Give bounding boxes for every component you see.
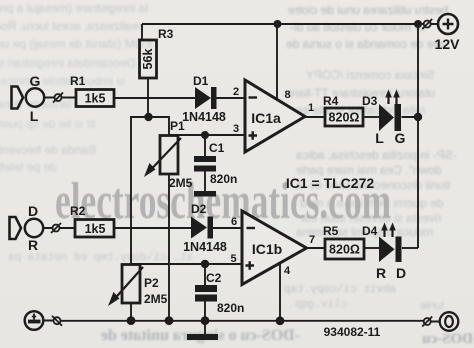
wire ground stub below rail — [204, 320, 206, 334]
svg-text:1k5: 1k5 — [85, 222, 106, 236]
svg-text:IC1 = TLC272: IC1 = TLC272 — [286, 175, 375, 191]
12V supply terminal — [435, 14, 461, 52]
svg-text:L: L — [30, 108, 39, 124]
ground bar below C1 — [194, 191, 216, 197]
svg-text:1N4148: 1N4148 — [183, 240, 227, 254]
svg-text:2M5: 2M5 — [144, 292, 168, 306]
junction node P1 to ground rail — [165, 316, 174, 325]
svg-text:IC1b: IC1b — [252, 241, 282, 257]
svg-text:R: R — [28, 237, 38, 253]
svg-text:2M5: 2M5 — [169, 176, 193, 190]
wire D4 cathode to +12V rail — [402, 247, 418, 249]
junction node on top rail at 12V — [414, 20, 422, 28]
potentiometer P2 2M5 — [108, 265, 168, 307]
svg-text:8: 8 — [285, 89, 291, 101]
wire D2 cathode to pin 6 — [213, 227, 243, 229]
wire C1 top lead — [204, 135, 206, 156]
wire P1 top to pin 3 — [169, 134, 245, 136]
svg-text:L: L — [375, 130, 384, 146]
svg-text:6: 6 — [231, 216, 237, 228]
connector symbol at 0V right — [422, 317, 432, 327]
svg-text:R5: R5 — [323, 224, 339, 238]
potentiometer P1 2M5 — [144, 119, 193, 190]
diode D2 1N4148 — [183, 202, 227, 254]
wire bias node to P2 top (long left branch) — [131, 117, 148, 264]
ground terminal (chassis) — [25, 311, 44, 330]
junction node C2 to ground rail — [201, 316, 210, 325]
LED D4 — [362, 223, 406, 282]
wire input L to R1 — [44, 97, 75, 99]
wire R4 to D3 — [363, 116, 379, 118]
jack plug symbol R input — [10, 217, 22, 239]
wire R1 to D1 — [114, 97, 195, 99]
wire right +12V rail — [417, 24, 419, 248]
svg-text:12V: 12V — [435, 36, 461, 52]
svg-text:G: G — [395, 130, 406, 146]
svg-text:1N4148: 1N4148 — [182, 110, 226, 124]
junction node pin4 to ground rail — [276, 316, 285, 325]
svg-text:D3: D3 — [362, 94, 378, 108]
wire D3 cathode to +12V rail — [402, 116, 419, 118]
junction node on top rail at pin8 — [274, 20, 282, 28]
wire C1 bottom to ground bar — [204, 172, 206, 192]
junction node P2 to ground rail — [127, 316, 136, 325]
svg-text:C1: C1 — [209, 141, 225, 155]
svg-text:4: 4 — [284, 265, 291, 277]
connector symbol at ground left — [52, 316, 62, 326]
wire C2 top lead — [204, 264, 206, 285]
wire 12V terminal link — [418, 23, 438, 25]
resistor R2 — [75, 220, 114, 238]
svg-text:56k: 56k — [141, 49, 155, 70]
input socket circle G/L — [26, 88, 44, 106]
svg-text:1: 1 — [308, 102, 314, 114]
junction node pin3/C1 — [201, 131, 209, 139]
capacitor C1 820n — [194, 141, 237, 186]
wire P2 bottom lead — [130, 303, 132, 320]
svg-text:D4: D4 — [362, 224, 378, 238]
svg-text:R3: R3 — [158, 27, 174, 41]
svg-text:G: G — [30, 73, 41, 89]
diode D1 1N4148 — [182, 74, 226, 124]
wire C2 bottom lead — [204, 301, 206, 320]
wire top supply rail — [142, 23, 418, 25]
wire R5 to D4 — [364, 247, 379, 249]
LED D3 — [362, 90, 406, 147]
resistor R4 — [325, 108, 363, 126]
svg-text:R: R — [376, 265, 386, 281]
op-amp IC1a — [233, 80, 314, 152]
svg-text:IC1a: IC1a — [251, 110, 281, 126]
svg-text:2: 2 — [233, 86, 239, 98]
wire IC1b pin 4 to ground rail — [279, 262, 281, 320]
svg-text:3: 3 — [233, 123, 239, 135]
ground bar below rail at C2 — [187, 334, 218, 340]
junction node D3 to rail — [414, 113, 422, 121]
svg-text:P2: P2 — [144, 276, 159, 290]
resistor R5 — [325, 239, 364, 259]
wire R3 bottom lead — [147, 78, 149, 117]
junction node pin5/C2 — [201, 260, 209, 268]
svg-text:R1: R1 — [70, 74, 86, 88]
resistor R3 — [140, 40, 157, 78]
svg-text:820Ω: 820Ω — [329, 243, 360, 257]
svg-text:1k5: 1k5 — [85, 92, 106, 106]
svg-text:7: 7 — [309, 234, 315, 246]
svg-text:820n: 820n — [210, 172, 237, 186]
svg-text:D2: D2 — [191, 202, 207, 216]
capacitor C2 820n — [195, 271, 244, 315]
connector symbol at 12V — [422, 19, 432, 29]
input socket circle D/R — [25, 219, 43, 237]
wire R3 top lead — [141, 24, 143, 40]
wire P1 bottom lead to ground rail — [168, 174, 170, 320]
connector symbol at L input — [53, 93, 63, 103]
wire IC1a output to R4 — [305, 116, 325, 118]
svg-text:D1: D1 — [193, 74, 209, 88]
watermark — [55, 172, 391, 231]
wire R2 to D2 — [114, 227, 191, 229]
op-amp IC1b — [230, 211, 315, 285]
svg-text:P1: P1 — [170, 119, 185, 133]
jack plug symbol L input — [12, 87, 24, 109]
resistor R1 — [76, 90, 114, 107]
wire IC1b output to R5 — [307, 247, 325, 249]
wire input R to R2 — [43, 227, 74, 229]
svg-text:D: D — [396, 265, 406, 281]
0V terminal — [440, 312, 459, 331]
svg-text:D: D — [28, 203, 38, 219]
svg-text:5: 5 — [230, 253, 236, 265]
svg-text:C2: C2 — [206, 271, 222, 285]
svg-text:820Ω: 820Ω — [329, 111, 360, 125]
wire IC1a pin 8 supply — [276, 24, 278, 100]
svg-text:R4: R4 — [323, 94, 339, 108]
wire P2 top to pin 5 — [131, 263, 243, 265]
svg-text:R2: R2 — [70, 204, 86, 218]
wire D1 cathode to pin 2 — [217, 97, 246, 99]
faint bleed-through printed text (background) — [0, 1, 148, 15]
svg-text:934082-11: 934082-11 — [324, 325, 381, 339]
wire ground rail — [43, 321, 439, 322]
connector symbol at R input — [51, 223, 61, 233]
junction node bias (R3/P1/P2) — [144, 113, 152, 121]
svg-text:820n: 820n — [217, 301, 244, 315]
wire bias node to P1 top — [148, 117, 169, 136]
